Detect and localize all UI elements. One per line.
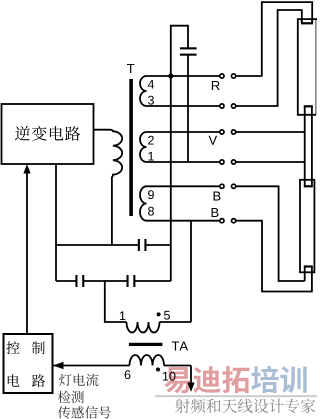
lamp 2 (CCFL tube) — [300, 180, 314, 272]
wire: B row (pin8) riser to lamp2 bottom right pin — [262, 221, 312, 292]
capacitor C-top plates — [180, 47, 197, 49]
wire: line B down to TA pin 1 — [105, 281, 127, 322]
connector row B (pin 8) — [147, 220, 220, 222]
transformer T secondary winding pins 2-1 — [140, 132, 147, 162]
line B (with two capacitors) — [56, 275, 171, 287]
watermark big text 易迪拓培训 — [164, 367, 190, 393]
connector row pin 3 — [147, 105, 220, 107]
lamp1 bottom electrode + inter-lamp stems — [304, 105, 313, 187]
transformer T secondary winding pins 4-3 — [140, 76, 147, 106]
watermark subtitle 射频和天线设计专家 — [175, 399, 190, 413]
TA core bar — [129, 343, 163, 346]
connector row R (pin 4) — [147, 75, 220, 77]
capacitor C-top leads — [187, 26, 189, 49]
connector row V (pin 2) — [147, 131, 220, 133]
lamp 1 (CCFL tube) — [298, 19, 317, 115]
TA polarity dot (pin10) — [156, 368, 160, 372]
lamp2 bottom electrode — [304, 265, 313, 292]
TA polarity dot (pin5) — [157, 312, 161, 316]
wire: TA pin10 drop with arrow — [190, 366, 192, 386]
transformer T primary winding — [94, 130, 122, 245]
watermark underline — [155, 395, 317, 397]
top resonant capacitor branch: vertical rail x=170.8 — [170, 26, 172, 281]
lamp1 top electrode — [301, 19, 313, 24]
arrowhead into control box (lamp current signal) — [53, 362, 64, 370]
lamp 1 right edge (faint, clipped) — [315, 19, 317, 115]
wire: pin3 row riser to lamp1 top left pin — [278, 10, 302, 106]
control circuit block 控制电路 — [4, 334, 53, 393]
wire: R row riser to lamp1 top right pin — [262, 2, 312, 76]
junction node at pin4 line and rail — [168, 73, 173, 78]
wire: B row (pin9) riser to lamp2 bottom left pin — [279, 186, 305, 281]
transformer T core — [127, 64, 134, 216]
wire: feedback arrow from control box top to inverter box bottom — [23, 164, 30, 334]
current transformer TA secondary winding (6-10) — [53, 365, 130, 367]
wire: TA pin5 riser up to pin8 row — [190, 221, 192, 322]
connector row pin 1 — [147, 161, 220, 163]
wire: inverter box bottom to line A/B (left rail) — [55, 164, 57, 281]
current transformer TA primary winding (1-5) — [127, 322, 160, 333]
connector row B (pin 9) — [147, 185, 220, 187]
label: lamp current detection sensing signal 灯电流/检测/传感信号 — [59, 374, 72, 386]
top loop horizontal — [170, 25, 189, 27]
transformer T secondary winding pins 9-8 — [140, 186, 147, 220]
line A (with capacitor) — [56, 239, 171, 251]
inverter circuit block 逆变电路 — [2, 104, 94, 164]
